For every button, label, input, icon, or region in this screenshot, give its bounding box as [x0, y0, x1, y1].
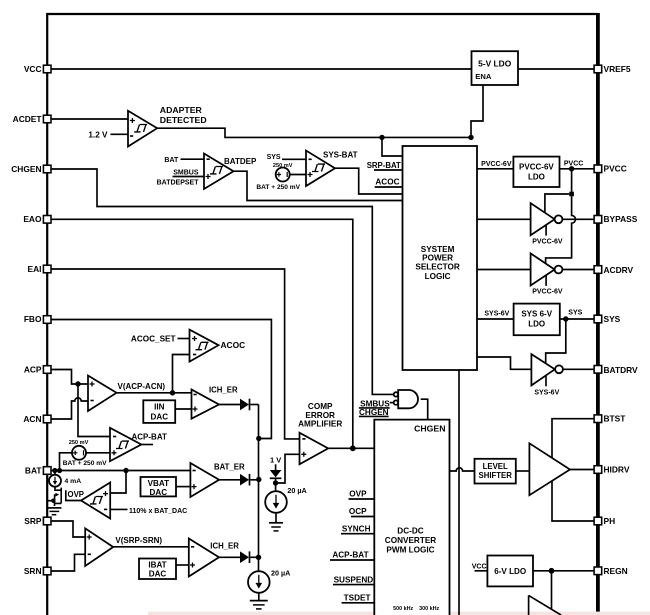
- wire HIDRV output: [570, 469, 594, 471]
- comparator ACP-BAT: [110, 428, 167, 461]
- svg-text:SUSPEND: SUSPEND: [334, 575, 374, 584]
- comparator BATDEP: [204, 154, 234, 190]
- svg-text:PVCC-6V: PVCC-6V: [481, 161, 512, 168]
- current source 20 uA (top): [265, 486, 307, 513]
- svg-text:PVCC-6V: PVCC-6V: [519, 162, 554, 171]
- svg-text:PVCC: PVCC: [604, 163, 627, 173]
- PWM input stubs: [332, 490, 373, 603]
- svg-text:300 kHz: 300 kHz: [419, 606, 439, 612]
- svg-text:LDO: LDO: [528, 320, 545, 329]
- svg-text:SMBUS: SMBUS: [360, 399, 390, 408]
- svg-text:OCP: OCP: [349, 507, 367, 516]
- diode D1: [219, 399, 259, 411]
- DAC IIN: [143, 400, 191, 423]
- svg-text:EAO: EAO: [23, 214, 42, 224]
- svg-text:ICH_ER: ICH_ER: [209, 386, 238, 395]
- wire BAT pin row: [51, 470, 191, 472]
- svg-text:LDO: LDO: [528, 173, 545, 182]
- wire VCC to 5-V LDO: [51, 68, 472, 70]
- svg-text:BTST: BTST: [604, 414, 627, 424]
- svg-text:VCC: VCC: [472, 564, 487, 571]
- wire SRP pin: [51, 521, 85, 537]
- 6-V LDO box: [472, 556, 594, 587]
- comparator SYS-BAT: [306, 151, 335, 187]
- svg-text:110% x BAT_DAC: 110% x BAT_DAC: [129, 508, 187, 515]
- gate AND (SMBUS & CHGEN enable): [394, 390, 418, 408]
- wire ACOC - input from V(ACP-ACN): [173, 355, 190, 393]
- wire BATDEP output to selector: [234, 171, 403, 200]
- amplifier ICH_ER (charge current): [189, 539, 219, 577]
- svg-text:CONVERTER: CONVERTER: [385, 536, 436, 545]
- svg-text:EAI: EAI: [28, 264, 42, 274]
- comparator ACOC: [131, 330, 245, 362]
- svg-text:ICH_ER: ICH_ER: [210, 542, 239, 551]
- svg-text:ACN: ACN: [23, 414, 41, 424]
- svg-text:AMPLIFIER: AMPLIFIER: [298, 420, 342, 429]
- comparator ACDET (adapter detect): [128, 111, 157, 147]
- svg-text:BAT_ER: BAT_ER: [214, 462, 245, 471]
- svg-text:LOGIC: LOGIC: [425, 272, 451, 281]
- svg-text:BAT + 250 mV: BAT + 250 mV: [256, 184, 300, 191]
- wire V(ACP-ACN) output: [117, 392, 192, 394]
- svg-text:SYS-6V: SYS-6V: [534, 389, 559, 396]
- amplifier BAT_ER: [190, 463, 219, 497]
- amplifier V(ACP-ACN): [88, 376, 117, 412]
- wire 1V node to error amp +: [276, 454, 300, 483]
- DAC VBAT: [141, 477, 191, 497]
- svg-text:4 mA: 4 mA: [65, 478, 82, 485]
- current source 20 uA (bottom): [248, 568, 290, 592]
- svg-text:SRP: SRP: [24, 516, 42, 526]
- svg-text:ADAPTER: ADAPTER: [160, 105, 203, 115]
- svg-text:ACOC_SET: ACOC_SET: [131, 335, 176, 344]
- svg-text:ENA: ENA: [475, 72, 492, 81]
- wire EAI pin to error amp inverting input: [51, 269, 300, 439]
- wire diode-OR bus: [258, 405, 260, 572]
- RIGHT PIN LABELS: [604, 64, 639, 576]
- svg-text:REGN: REGN: [604, 566, 628, 576]
- svg-text:SYSTEM: SYSTEM: [421, 245, 455, 254]
- svg-text:DAC: DAC: [149, 570, 167, 579]
- wire selector logic down to low-side driver: [458, 370, 460, 615]
- ground (20uA bottom): [250, 593, 268, 609]
- summer 250mV (SYS-BAT): [256, 163, 300, 191]
- svg-text:IIN: IIN: [154, 402, 164, 411]
- wire CHGEN pin to AND gate: [51, 169, 394, 394]
- ground (20uA top): [269, 513, 283, 531]
- 5-V LDO box U1: [472, 51, 519, 85]
- svg-text:BAT: BAT: [25, 465, 42, 475]
- PIN SQUARES right: [594, 65, 602, 574]
- svg-text:V(ACP-ACN): V(ACP-ACN): [118, 382, 166, 391]
- amplifier V(SRP-SRN): [85, 528, 113, 566]
- svg-text:VREF5: VREF5: [604, 64, 631, 74]
- DAC IBAT: [139, 559, 189, 580]
- svg-text:SYNCH: SYNCH: [342, 524, 371, 533]
- diode D2: [219, 474, 258, 486]
- svg-text:TSDET: TSDET: [344, 593, 371, 602]
- amplifier COMP ERROR: [298, 402, 342, 464]
- wire PVCC supply rail to drivers: [545, 169, 576, 263]
- svg-text:1.2 V: 1.2 V: [88, 131, 108, 140]
- wire ACDET pin to comparator: [51, 118, 128, 120]
- svg-text:BATDEP: BATDEP: [224, 157, 257, 166]
- wire 5-V LDO to VREF5: [518, 68, 594, 70]
- wire ACP pin: [51, 370, 88, 385]
- svg-text:PH: PH: [604, 516, 616, 526]
- svg-text:SYS: SYS: [604, 314, 621, 324]
- wire error amp output to PWM: [328, 447, 374, 449]
- svg-text:IBAT: IBAT: [148, 560, 166, 569]
- node to ACOC: [170, 390, 175, 395]
- driver BATDRV: [477, 354, 594, 396]
- svg-text:250 mV: 250 mV: [273, 163, 293, 169]
- wire 1.2V ref: [111, 133, 129, 135]
- svg-text:SYS: SYS: [568, 310, 582, 317]
- node ACP branch: [75, 381, 80, 386]
- wire summer to SYS-BAT +: [290, 174, 306, 176]
- wire FBO pin to diode bus: [51, 320, 272, 439]
- current source 4 mA: [49, 471, 81, 487]
- node adapter/ENA junction: [379, 135, 384, 140]
- svg-text:SYS 6-V: SYS 6-V: [521, 310, 552, 319]
- wire V(SRP-SRN) output: [113, 546, 189, 548]
- svg-text:SMBUS: SMBUS: [173, 170, 199, 177]
- svg-text:COMP: COMP: [308, 402, 333, 411]
- ground (FET): [48, 508, 62, 515]
- svg-text:BATDRV: BATDRV: [604, 365, 639, 375]
- svg-text:SYS-BAT: SYS-BAT: [323, 151, 358, 160]
- wire REGN rail to low-side driver: [551, 571, 553, 610]
- wire SYS supply to BATDRV driver: [546, 319, 566, 363]
- svg-text:LEVEL: LEVEL: [483, 462, 508, 471]
- svg-text:SRP-BAT: SRP-BAT: [367, 161, 401, 170]
- svg-text:SYS: SYS: [267, 154, 281, 161]
- wire SRN pin: [51, 554, 85, 571]
- SYS 6-V LDO box: [477, 304, 594, 336]
- svg-text:ERROR: ERROR: [305, 411, 335, 420]
- svg-text:ACDRV: ACDRV: [604, 265, 634, 275]
- wire ACP to ACP-BAT comparator: [78, 384, 110, 437]
- transistor (BAT detect FET): [47, 487, 61, 506]
- label 110% x BAT_DAC: [110, 508, 127, 510]
- wire BAT to OVP + input: [110, 471, 126, 494]
- wire BTST to driver top: [552, 419, 594, 458]
- svg-text:DETECTED: DETECTED: [160, 115, 207, 125]
- DC-DC CONVERTER PWM LOGIC block: [374, 420, 449, 615]
- comparator OVP (points left): [66, 483, 110, 519]
- 1 V clamp reference: [270, 455, 282, 491]
- svg-text:BATDEPSET: BATDEPSET: [157, 180, 200, 187]
- highlight band bottom: [148, 612, 650, 615]
- svg-text:DAC: DAC: [151, 412, 169, 421]
- PVCC-6V LDO box: [477, 157, 594, 187]
- wire EAO pin to error amp output: [51, 219, 353, 448]
- diode D3: [219, 551, 259, 563]
- driver LODRV (cut off): [529, 595, 561, 615]
- svg-text:V(SRP-SRN): V(SRP-SRN): [115, 536, 162, 545]
- svg-text:OVP: OVP: [68, 490, 84, 499]
- wire PH to driver bottom: [552, 481, 594, 521]
- svg-text:ACOC: ACOC: [375, 177, 399, 186]
- driver ACDRV: [477, 253, 594, 295]
- svg-text:DC-DC: DC-DC: [397, 527, 423, 536]
- svg-text:CHGEN: CHGEN: [11, 164, 41, 174]
- svg-text:POWER: POWER: [422, 254, 453, 263]
- driver HIDRV: [529, 443, 570, 495]
- SYSTEM POWER SELECTOR LOGIC block: [403, 146, 478, 370]
- svg-text:ACDET: ACDET: [13, 114, 43, 124]
- wire SYS-BAT output to selector: [335, 168, 403, 194]
- svg-text:ACP: ACP: [24, 364, 42, 374]
- svg-text:20 µA: 20 µA: [271, 568, 290, 577]
- svg-text:BAT: BAT: [164, 157, 179, 164]
- label SMBUS / CHGEN (gate inputs): [359, 399, 390, 417]
- svg-text:SHIFTER: SHIFTER: [479, 471, 513, 480]
- svg-text:500 kHz: 500 kHz: [393, 606, 413, 612]
- wire ACN pin with hop: [51, 398, 88, 419]
- svg-text:PWM LOGIC: PWM LOGIC: [386, 546, 434, 555]
- svg-text:BAT + 250 mV: BAT + 250 mV: [63, 460, 107, 467]
- summer 250mV (ACP-BAT): [63, 440, 110, 467]
- LEFT PIN LABELS: [11, 64, 42, 576]
- PIN SQUARES left: [43, 65, 51, 575]
- svg-text:FBO: FBO: [24, 314, 42, 324]
- svg-text:250 mV: 250 mV: [69, 440, 89, 446]
- svg-text:PVCC-6V: PVCC-6V: [532, 239, 563, 246]
- wire BAT to summer: [60, 453, 73, 471]
- amplifier ICH_ER (input current): [192, 390, 220, 419]
- svg-text:SRN: SRN: [24, 566, 42, 576]
- svg-text:PVCC: PVCC: [564, 160, 583, 167]
- wire adapter-detected output: [157, 128, 471, 137]
- wire level shifter to driver: [516, 470, 530, 472]
- svg-text:BYPASS: BYPASS: [604, 214, 638, 224]
- svg-text:VCC: VCC: [24, 64, 42, 74]
- LEVEL SHIFTER box: [475, 459, 516, 484]
- svg-text:ACP-BAT: ACP-BAT: [132, 432, 168, 441]
- svg-text:CHGEN: CHGEN: [414, 423, 445, 433]
- svg-text:20 µA: 20 µA: [287, 486, 306, 495]
- svg-text:HIDRV: HIDRV: [604, 464, 630, 474]
- svg-text:6-V LDO: 6-V LDO: [494, 567, 526, 576]
- svg-text:ACP-BAT: ACP-BAT: [332, 551, 368, 560]
- svg-text:SYS-6V: SYS-6V: [484, 311, 509, 318]
- svg-text:1 V: 1 V: [270, 455, 281, 464]
- driver BYPASS: [477, 203, 594, 245]
- svg-text:ACOC: ACOC: [221, 340, 246, 350]
- svg-text:PVCC-6V: PVCC-6V: [532, 289, 563, 296]
- wire AND output to PWM block: [421, 399, 428, 419]
- wire PWM to level shifter (hop over selector line): [450, 468, 475, 471]
- wire ENA: [471, 85, 483, 137]
- svg-text:DAC: DAC: [150, 488, 168, 497]
- svg-text:SELECTOR: SELECTOR: [415, 262, 460, 271]
- svg-text:5-V LDO: 5-V LDO: [478, 58, 512, 68]
- wire adapter to selector logic: [382, 137, 403, 156]
- svg-text:OVP: OVP: [349, 490, 367, 499]
